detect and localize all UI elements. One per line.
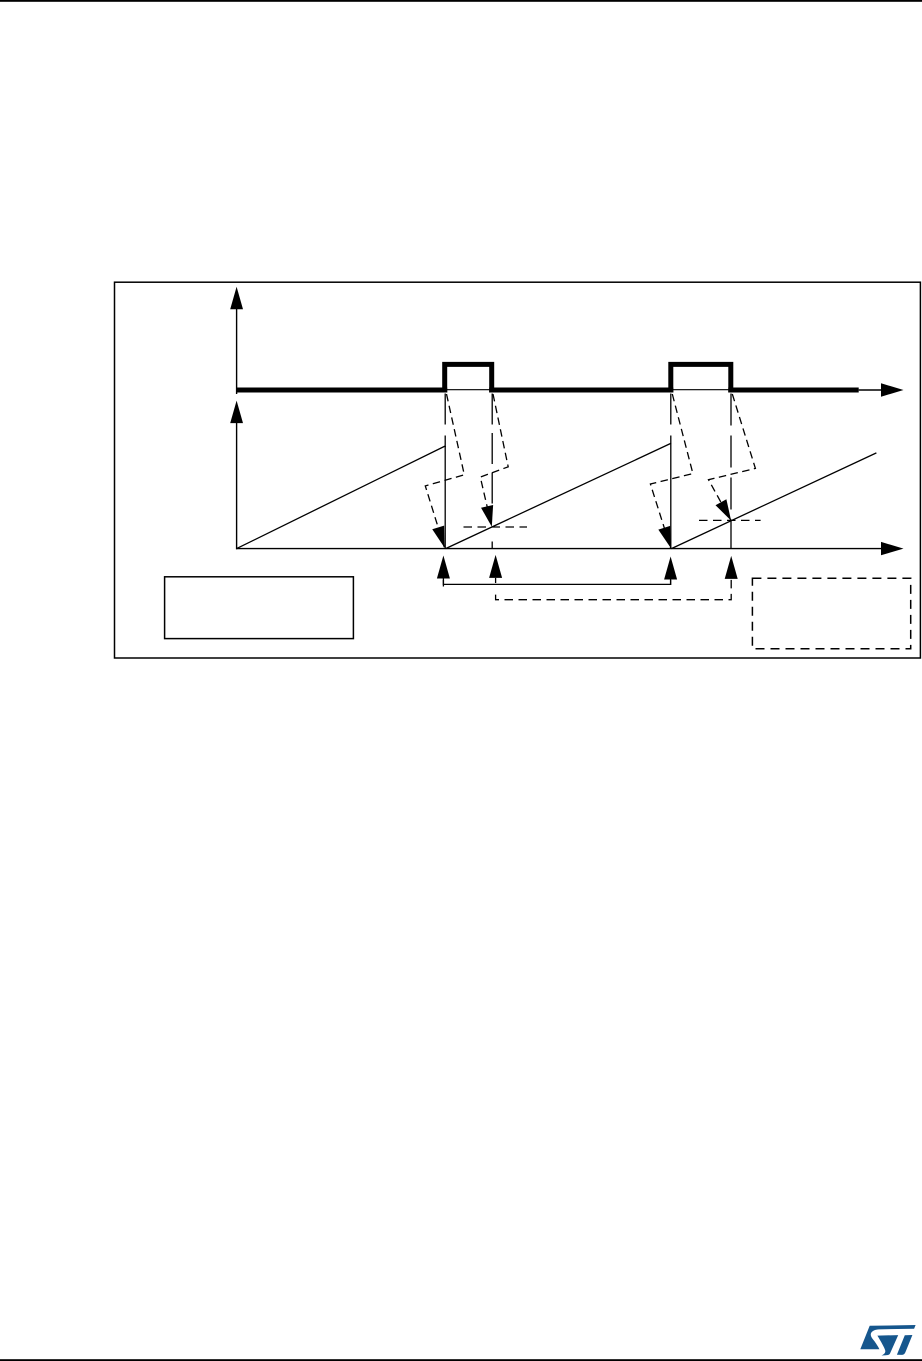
counter y-axis arrowhead [230, 401, 243, 424]
bottom up-arrow 3 [664, 557, 677, 580]
legend box solid [165, 577, 354, 639]
PWM y-axis [236, 308, 238, 394]
PWM thick baseline segment 3 [728, 388, 858, 393]
page bottom rule [0, 1359, 922, 1361]
bottom up-arrow 1 [437, 556, 450, 579]
page top rule [0, 0, 922, 2]
dashed vertical from pulse2 falling edge [730, 394, 732, 549]
counter reset edge 1 [444, 446, 446, 549]
ST logo S body [877, 1335, 898, 1355]
counter ramp 1 [237, 446, 446, 549]
period bracket dashed [496, 580, 732, 600]
dashed vertical from pulse2 rising edge [670, 394, 672, 445]
counter x-axis [236, 548, 884, 550]
hook arrow: pulse2 falling edge to compare point [709, 394, 756, 521]
ST logo T leg [897, 1335, 913, 1355]
hook arrow: pulse2 rising edge to counter reset [650, 394, 693, 548]
PWM baseline thin extension [859, 389, 884, 391]
compare level dashed line 2 [699, 519, 761, 521]
counter ramp 2 [446, 443, 671, 548]
figure frame [115, 282, 921, 658]
legend box dashed [752, 578, 910, 649]
tick on x-axis below pulse1 falling edge [491, 542, 493, 549]
bottom up-arrow 2 [489, 555, 502, 578]
PWM thin baseline under pulse 2 [671, 389, 731, 391]
counter x-axis arrowhead [881, 542, 904, 555]
counter y-axis [236, 422, 238, 549]
compare level dashed line 1 [464, 526, 528, 528]
counter ramp 3 [671, 453, 876, 549]
hook arrow: pulse1 rising edge to counter reset [425, 394, 464, 548]
bottom up-arrow 4 [725, 556, 738, 579]
dashed vertical from pulse1 rising edge [444, 394, 446, 448]
counter reset edge 2 [670, 443, 672, 548]
PWM thick baseline segment 1 [237, 388, 448, 393]
dashed vertical from pulse1 falling edge [491, 394, 493, 506]
ST logo [860, 1325, 915, 1355]
PWM pulse 2 [671, 364, 731, 392]
PWM y-axis arrowhead [230, 287, 243, 310]
PWM thick baseline segment 2 [489, 388, 673, 393]
hook arrow: pulse1 falling edge to compare point [480, 394, 508, 527]
PWM pulse 1 [445, 364, 492, 392]
ST logo band and left wedge [860, 1325, 915, 1349]
PWM baseline arrowhead [881, 383, 904, 396]
period bracket solid [443, 580, 670, 584]
PWM thin baseline under pulse 1 [445, 389, 492, 391]
